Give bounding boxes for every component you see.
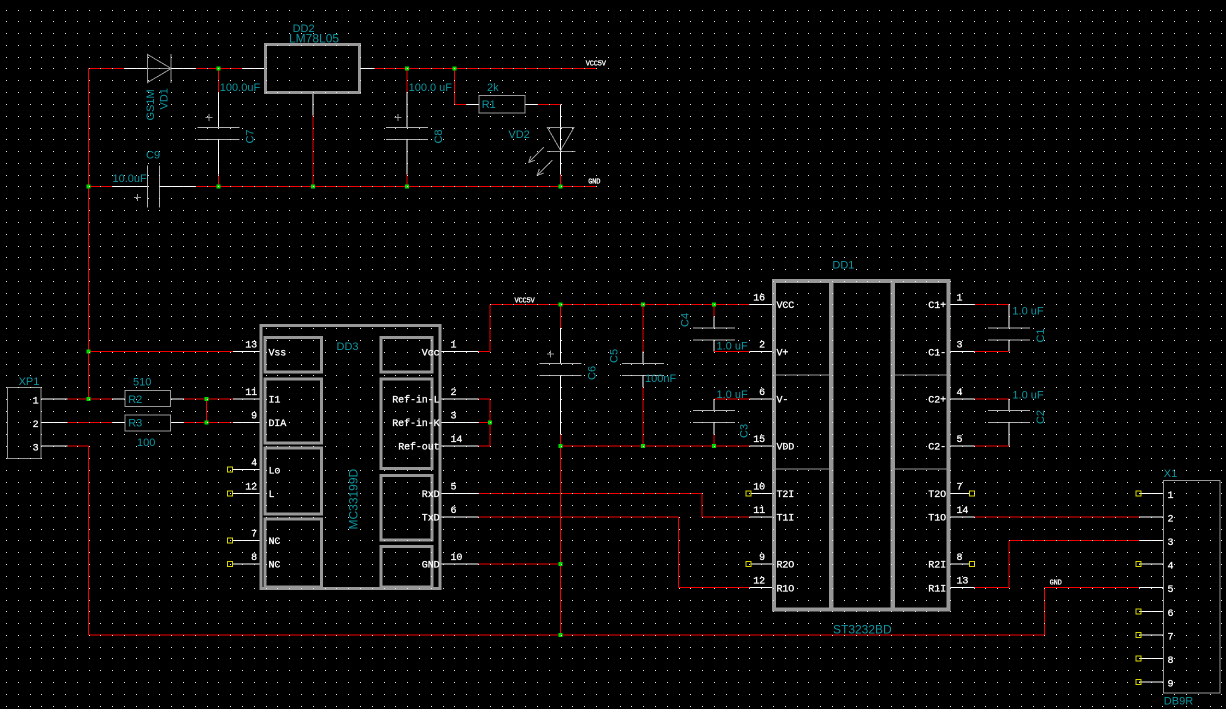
svg-text:T2O: T2O [928, 490, 946, 501]
svg-text:VD2: VD2 [508, 129, 529, 141]
svg-text:10: 10 [753, 482, 765, 493]
svg-text:Ref-in-K: Ref-in-K [392, 418, 439, 430]
junction GND rail C8 [405, 185, 409, 189]
svg-text:9: 9 [1168, 680, 1174, 691]
svg-text:DB9R: DB9R [1164, 696, 1193, 708]
junction GND rail C7 [216, 185, 220, 189]
svg-text:1: 1 [957, 294, 963, 305]
IC DD1 ST3232BD [774, 281, 949, 610]
svg-text:GND: GND [422, 561, 440, 572]
svg-text:L: L [269, 490, 275, 501]
wire bottom GND bus [89, 634, 1045, 636]
junction GND rail at input bus [87, 185, 91, 189]
svg-text:C6: C6 [586, 366, 598, 380]
junction VCC rail C6 [559, 303, 563, 307]
svg-text:C5: C5 [609, 349, 621, 363]
svg-text:VDD: VDD [777, 443, 795, 454]
svg-text:13: 13 [957, 577, 969, 588]
wire TxD to R1O [478, 516, 678, 518]
svg-text:12: 12 [245, 482, 257, 493]
svg-text:3: 3 [957, 341, 963, 352]
svg-text:ST3232BD: ST3232BD [833, 623, 892, 637]
svg-text:V+: V+ [777, 348, 789, 359]
junction GND rail VD2 [559, 185, 563, 189]
junction mid GND C3 [712, 444, 716, 448]
junction R1 tap [452, 67, 456, 71]
wire DD3 Vcc to VCC5V rail [478, 351, 490, 353]
svg-text:4: 4 [251, 459, 257, 470]
svg-text:C8: C8 [433, 129, 445, 143]
svg-text:TxD: TxD [422, 514, 440, 525]
svg-text:C4: C4 [680, 313, 692, 327]
junction mid GND at bottom bus [559, 633, 563, 637]
wire +12V input bus (XP1 pin1 up to VD1) [89, 68, 125, 70]
wire R1 feed [453, 69, 455, 105]
svg-text:5: 5 [1168, 585, 1174, 596]
svg-text:MC33199D: MC33199D [347, 468, 361, 529]
svg-text:9: 9 [251, 412, 257, 423]
wire DD2 output 5V rail [375, 68, 597, 70]
wire R1 to VD2 [538, 103, 561, 105]
wire XP1 pin1 to R2 [68, 398, 113, 400]
resistor R1 2k [467, 103, 479, 105]
svg-text:C2+: C2+ [928, 396, 946, 407]
capacitor C3 1.0 uF [713, 399, 715, 411]
svg-text:Lo: Lo [269, 466, 281, 477]
svg-text:1: 1 [1168, 491, 1174, 502]
capacitor C8 100.0 uF [406, 69, 408, 93]
svg-text:1.0 uF: 1.0 uF [1012, 390, 1043, 402]
svg-text:100.0 uF: 100.0 uF [409, 82, 453, 94]
wire R1I to X1 pin3 [975, 587, 1010, 589]
wire VCC rail to pin16 [750, 304, 772, 306]
svg-text:VCC: VCC [777, 301, 795, 312]
wire R2 to I1 [184, 398, 233, 400]
capacitor C1 1.0 uF [975, 304, 1010, 306]
svg-text:C2: C2 [1035, 410, 1047, 424]
junction R2/R3 tie upper [205, 397, 209, 401]
svg-text:7: 7 [957, 482, 963, 493]
svg-text:I1: I1 [269, 396, 281, 407]
svg-text:V-: V- [777, 396, 789, 407]
junction GND rail DD2 [311, 185, 315, 189]
svg-text:Vss: Vss [269, 348, 287, 359]
wire XP1 pin2 to R3 [68, 422, 113, 424]
svg-text:Vcc: Vcc [422, 348, 440, 359]
op-amp U? no — IC DD3 MC33199D [261, 326, 440, 589]
svg-text:1: 1 [451, 341, 457, 352]
svg-text:2: 2 [451, 388, 457, 399]
svg-text:14: 14 [451, 435, 463, 446]
svg-text:6: 6 [759, 388, 765, 399]
svg-text:R2O: R2O [777, 561, 795, 572]
svg-text:VCC5V: VCC5V [586, 61, 607, 69]
connector X1 DB9R [1164, 480, 1221, 693]
junction Ref-in-K [488, 421, 492, 425]
svg-text:13: 13 [245, 341, 257, 352]
svg-text:5: 5 [451, 482, 457, 493]
wire VD1 cathode to DD2 input [195, 68, 242, 70]
svg-text:8: 8 [1168, 656, 1174, 667]
svg-text:LM78L05: LM78L05 [289, 32, 339, 46]
wire XP1 pin3 to bottom GND bus [68, 445, 89, 447]
svg-text:R3: R3 [128, 418, 142, 430]
svg-text:3: 3 [451, 412, 457, 423]
connector XP1 [7, 388, 41, 459]
svg-text:C1+: C1+ [928, 301, 946, 312]
svg-text:15: 15 [753, 435, 765, 446]
svg-text:C1: C1 [1035, 328, 1047, 342]
wire C3 to V- [714, 398, 750, 400]
capacitor C2 1.0 uF [975, 398, 1010, 400]
svg-text:9: 9 [759, 553, 765, 564]
svg-text:10.0uF: 10.0uF [113, 173, 148, 185]
wire T1O to X1 pin2 [975, 516, 1139, 518]
svg-text:100: 100 [137, 437, 155, 449]
svg-text:X1: X1 [1164, 468, 1177, 480]
svg-text:Ref-out: Ref-out [398, 442, 439, 454]
svg-text:RxD: RxD [422, 490, 440, 501]
svg-text:R1I: R1I [928, 584, 946, 595]
svg-text:16: 16 [753, 294, 765, 305]
wire VCC5V rail [490, 304, 750, 306]
resistor R2 510 [112, 398, 124, 400]
svg-text:T2I: T2I [777, 490, 795, 501]
wire mid GND vertical [560, 446, 562, 635]
svg-text:2: 2 [759, 341, 765, 352]
svg-text:XP1: XP1 [19, 376, 40, 388]
capacitor C9 10.0uF [112, 186, 147, 188]
svg-text:GND: GND [1050, 580, 1062, 588]
svg-text:6: 6 [1168, 609, 1174, 620]
wire Vss net [89, 351, 233, 353]
svg-text:R1: R1 [482, 99, 496, 111]
svg-text:C1-: C1- [928, 348, 946, 359]
svg-text:8: 8 [957, 553, 963, 564]
wire VD2 cathode stub [560, 175, 562, 187]
junction VCC rail C4 [712, 303, 716, 307]
svg-text:510: 510 [133, 377, 151, 389]
svg-text:2: 2 [33, 420, 39, 431]
svg-text:DD1: DD1 [832, 260, 854, 272]
svg-text:NC: NC [269, 561, 281, 572]
svg-text:12: 12 [753, 577, 765, 588]
svg-text:R2I: R2I [928, 561, 946, 572]
svg-text:11: 11 [245, 388, 257, 399]
svg-text:4: 4 [1168, 562, 1174, 573]
svg-text:5: 5 [957, 435, 963, 446]
wire GND top rail [89, 186, 113, 188]
svg-text:T1I: T1I [777, 514, 795, 525]
junction C8 tap [405, 67, 409, 71]
svg-text:C3: C3 [739, 424, 751, 438]
wire mid GND rail to VDD [561, 445, 750, 447]
svg-text:4: 4 [957, 388, 963, 399]
svg-text:10: 10 [451, 553, 463, 564]
svg-text:C2-: C2- [928, 443, 946, 454]
wire Ref loop [478, 398, 490, 400]
svg-text:NC: NC [269, 537, 281, 548]
svg-text:R2: R2 [128, 394, 142, 406]
wire R3 to DIA [184, 422, 233, 424]
junction GND vertical at DD3 GND [559, 562, 563, 566]
resistor R3 100 [112, 422, 124, 424]
svg-text:C7: C7 [244, 129, 256, 143]
svg-text:1.0 uF: 1.0 uF [717, 341, 748, 353]
junction input bus pin1 [87, 397, 91, 401]
junction VCC rail C5 [641, 303, 645, 307]
svg-text:3: 3 [33, 444, 39, 455]
svg-text:VD1: VD1 [158, 88, 170, 109]
svg-text:DD3: DD3 [337, 341, 359, 353]
capacitor C4 1.0 uF [713, 305, 715, 317]
svg-text:11: 11 [753, 506, 765, 517]
junction C7 tap [216, 67, 220, 71]
voltage regulator DD2 LM78L05 [242, 68, 264, 70]
capacitor C7 100.0uF [217, 69, 219, 93]
svg-text:8: 8 [251, 553, 257, 564]
wire R2-R3 vertical tie [206, 399, 208, 423]
svg-text:GS1M: GS1M [145, 89, 157, 120]
svg-text:Ref-in-L: Ref-in-L [392, 395, 439, 407]
svg-text:1.0 uF: 1.0 uF [1012, 306, 1043, 318]
led VD2 [560, 104, 562, 127]
svg-text:1: 1 [33, 396, 39, 407]
wire DD3 GND to mid bus [478, 563, 560, 565]
junction input bus / Vss / pin1 [87, 350, 91, 354]
svg-text:T1O: T1O [928, 514, 946, 525]
svg-text:6: 6 [451, 506, 457, 517]
wire RxD to T1I [478, 492, 702, 494]
svg-text:100nF: 100nF [645, 373, 676, 385]
svg-text:7: 7 [251, 530, 257, 541]
junction mid GND C6 [559, 444, 563, 448]
wire C4 to V+ [714, 351, 750, 353]
svg-text:14: 14 [957, 506, 969, 517]
capacitor C6 [560, 305, 562, 329]
svg-text:7: 7 [1168, 632, 1174, 643]
svg-text:3: 3 [1168, 538, 1174, 549]
svg-text:2: 2 [1168, 514, 1174, 525]
wire X1 pin5 GND jog [1045, 587, 1139, 589]
svg-text:GND: GND [588, 179, 600, 187]
diode VD1 GS1M [124, 68, 147, 70]
capacitor C5 100nF [642, 305, 644, 352]
svg-text:2k: 2k [487, 82, 499, 94]
svg-text:R1O: R1O [777, 584, 795, 595]
junction mid GND C5 [641, 444, 645, 448]
junction R2/R3 tie lower [205, 421, 209, 425]
svg-text:DIA: DIA [269, 419, 287, 430]
